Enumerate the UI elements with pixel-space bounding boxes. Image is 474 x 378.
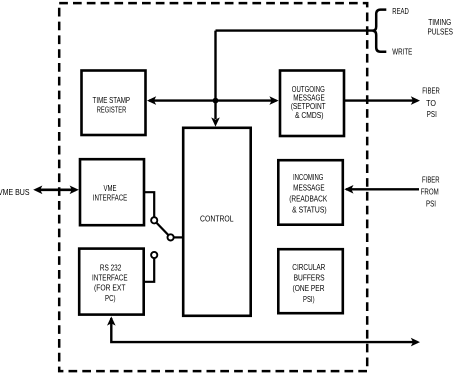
svg-text:FIBER: FIBER [422,175,440,185]
svg-text:(READBACK: (READBACK [289,194,327,204]
wire: timing line from control riser to brace [216,29,374,31]
box CONTROL [183,128,251,316]
brace for timing pulses [373,10,387,52]
wire: VME INTERFACE to switch throw [144,192,154,216]
svg-text:& STATUS): & STATUS) [292,204,327,214]
svg-text:TO: TO [426,98,436,108]
wire: VME BUS double-headed arrow [37,189,76,192]
svg-text:REGISTER: REGISTER [97,105,127,115]
svg-text:BUFFERS: BUFFERS [294,273,325,283]
switch throw terminal (from RS 232) [151,252,157,258]
svg-text:CONTROL: CONTROL [200,214,234,224]
svg-text:READ: READ [392,6,409,16]
svg-text:PULSES: PULSES [427,26,453,36]
svg-text:PSI: PSI [426,198,436,208]
svg-text:(ONE PER: (ONE PER [293,283,325,293]
wire: OUTGOING to fiber-to-psi arrow [345,99,418,101]
box RS 232 INTERFACE (FOR EXT PC) [79,249,144,315]
box U1 TIME STAMP REGISTER [82,71,146,136]
junction dot on riser [213,98,219,104]
box OUTGOING MESSAGE (SETPOINT &amp; CMDS) [280,71,344,137]
switch pole terminal [168,234,174,240]
svg-text:VME: VME [104,183,117,193]
wire: bottom output line [111,318,417,342]
svg-text:CIRCULAR: CIRCULAR [292,262,325,272]
svg-text:& CMDS): & CMDS) [295,110,324,120]
svg-text:PC): PC) [105,293,116,303]
svg-text:PSI: PSI [427,109,437,119]
wire: switch pole to CONTROL [174,236,183,238]
box CIRCULAR BUFFERS (ONE PER PSI) [278,249,343,313]
svg-text:WRITE: WRITE [392,46,412,56]
wire: TIME STAMP to OUTGOING (double arrow) [149,99,277,101]
svg-text:VME BUS: VME BUS [0,187,30,197]
wire: vertical riser into CONTROL top [214,31,216,119]
box VME INTERFACE [80,159,144,225]
svg-text:(FOR EXT: (FOR EXT [94,283,126,293]
switch throw terminal (from VME) [151,217,157,223]
svg-text:FROM: FROM [421,186,439,196]
svg-text:PSI): PSI) [303,294,315,304]
wire: RS 232 to switch throw [144,259,154,282]
svg-text:FIBER: FIBER [422,86,440,96]
wire: fiber-from-psi into INCOMING [346,188,419,190]
svg-text:INCOMING: INCOMING [293,172,324,182]
svg-text:TIMING: TIMING [428,17,451,27]
box INCOMING MESSAGE (READBACK &amp; STATUS) [278,160,343,225]
switch blade [157,223,169,235]
svg-text:RS 232: RS 232 [100,263,122,273]
svg-text:INTERFACE: INTERFACE [92,273,128,283]
svg-text:MESSAGE: MESSAGE [293,183,325,193]
dashed enclosure border [59,3,367,371]
svg-text:INTERFACE: INTERFACE [93,193,128,203]
